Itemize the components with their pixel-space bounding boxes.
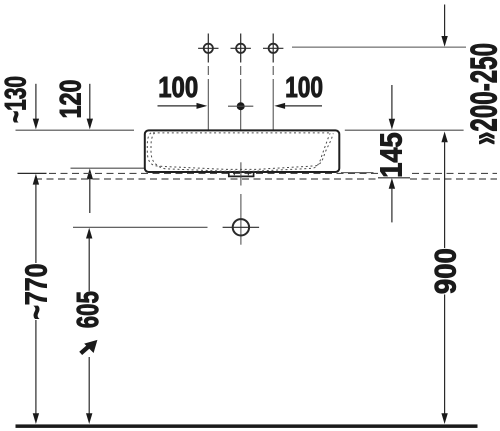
basin bowl hidden line outer [147, 133, 333, 170]
centre line below centre hole [240, 66, 242, 130]
dimension 145 bottom arrow [389, 178, 395, 222]
counter bottom dashed line [35, 178, 497, 180]
centre line below right hole [272, 66, 274, 130]
drain outlet circle [223, 219, 260, 235]
dimension 900 bottom arrow [441, 295, 447, 425]
svg-text:»200-250: »200-250 [464, 43, 500, 145]
mounting point dot [228, 102, 253, 110]
dimension 100 left arrow [158, 103, 208, 109]
dimension ~770 top arrow [33, 174, 39, 263]
svg-text:~770: ~770 [19, 264, 54, 320]
dimension 100 right arrow [274, 103, 322, 109]
drain fitting [229, 172, 254, 176]
faucet hole circle left [198, 34, 218, 63]
dimension 605 top arrow [86, 228, 92, 292]
solid line right of basin [341, 172, 374, 174]
basin top extension line right [345, 129, 464, 131]
svg-text:605: 605 [71, 291, 105, 328]
dimension 120 bottom extension line [71, 167, 145, 169]
faucet hole circle right [263, 34, 283, 63]
dimension ~130 top arrow [33, 84, 39, 130]
basin outline [145, 130, 339, 172]
svg-text:100: 100 [158, 72, 198, 104]
dimension 120 top arrow [87, 84, 93, 130]
dimension 605 extension line [73, 226, 208, 228]
dimension 145 top arrow [389, 85, 395, 130]
dimension 145 bottom extension segment [378, 177, 410, 179]
dimension ~770 bottom arrow [33, 320, 39, 424]
counter top solid segment (~770 reference) [18, 172, 47, 174]
svg-text:120: 120 [55, 80, 88, 119]
dimension 605 bottom arrow [86, 357, 92, 424]
basin top extension line left [16, 129, 135, 131]
basin centre line through drain [240, 162, 242, 244]
basin bowl hidden line inner [151, 133, 330, 172]
dimension »200-250 top arrow [441, 5, 447, 47]
floor line [16, 424, 478, 428]
counter top dashed line [49, 172, 497, 174]
faucet hole circle centre [231, 34, 251, 63]
height adjust arrow glyph [81, 340, 98, 354]
svg-text:900: 900 [430, 248, 463, 294]
dimension 900 top arrow [441, 132, 447, 249]
centre line below left hole [207, 66, 209, 130]
svg-text:145: 145 [375, 132, 409, 177]
svg-text:~130: ~130 [0, 76, 33, 123]
top reference line y=47 [292, 46, 466, 48]
svg-text:100: 100 [285, 72, 323, 104]
basin inner rim hidden line [153, 132, 331, 134]
dimension 120 bottom arrow [87, 168, 93, 213]
